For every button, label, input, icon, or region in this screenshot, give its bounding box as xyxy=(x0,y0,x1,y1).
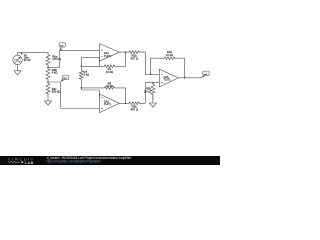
svg-text:1 kΩ: 1 kΩ xyxy=(84,73,90,77)
wire OA1 out + feedback riser xyxy=(119,52,129,66)
op-amp OA2 xyxy=(100,94,120,113)
resistor R7 xyxy=(80,57,82,70)
resistor R3a xyxy=(151,57,185,78)
footer bar xyxy=(0,156,220,165)
resistor R2b xyxy=(129,102,145,105)
R7 junction top xyxy=(81,66,83,68)
node A junction xyxy=(47,67,49,69)
ground (R6c) xyxy=(45,94,52,105)
wire node B to OA2 + xyxy=(48,82,100,109)
wire V1 top to R6a xyxy=(18,52,49,55)
svg-text:470 Ω: 470 Ω xyxy=(130,108,137,112)
OA3 output junction xyxy=(184,77,186,79)
R3a label xyxy=(166,50,173,57)
R7 label xyxy=(84,70,90,77)
wire R7 node to OA1 - xyxy=(81,57,99,66)
R6a label xyxy=(52,54,61,61)
resistor R2a xyxy=(129,51,145,54)
R2b label xyxy=(130,105,137,112)
R6c label xyxy=(52,87,61,94)
resistor R6c xyxy=(46,82,50,95)
svg-text:10 kΩ: 10 kΩ xyxy=(106,70,113,74)
svg-text:http://circuitlab.com/c6ky9b47: http://circuitlab.com/c6ky9b479qh8dw/ xyxy=(47,159,101,163)
flag in2 xyxy=(61,75,69,82)
svg-text:10 kΩ: 10 kΩ xyxy=(106,84,113,88)
R6b label xyxy=(52,68,58,75)
OA2 feedback junction xyxy=(125,103,127,105)
resistor R5 xyxy=(81,86,125,89)
ground (R3b) xyxy=(149,95,156,107)
R2a label xyxy=(130,53,137,60)
svg-text:10 kΩ: 10 kΩ xyxy=(144,89,151,93)
wire OA3 out to flag xyxy=(178,77,202,79)
svg-text:620 kΩ: 620 kΩ xyxy=(52,90,61,94)
junction R3b top xyxy=(152,82,154,84)
svg-text:TL071: TL071 xyxy=(164,79,172,82)
svg-text:LAB: LAB xyxy=(25,161,34,165)
wire node A to OA1 + xyxy=(48,51,100,68)
OA1 feedback junction xyxy=(125,51,127,53)
R7 junction bottom xyxy=(81,87,83,89)
svg-text:TL071: TL071 xyxy=(104,55,112,58)
junction R3a left xyxy=(150,74,152,76)
R4 label xyxy=(106,67,113,74)
op-amp OA3 xyxy=(159,69,178,87)
wire R7 bottom to OA2 - xyxy=(81,90,99,98)
voltage source V1 xyxy=(13,53,23,65)
R3b label xyxy=(144,86,152,93)
op-amp OA1 xyxy=(100,44,120,61)
resistor R4 xyxy=(81,65,125,68)
svg-text:TL071: TL071 xyxy=(104,103,112,106)
svg-text:4 kΩ: 4 kΩ xyxy=(52,71,58,75)
R5 label xyxy=(106,81,113,88)
wire R2a to OA3 - xyxy=(145,52,159,74)
resistor R6b xyxy=(46,67,50,82)
ground (V1) xyxy=(14,65,21,75)
svg-text:out: out xyxy=(204,73,207,76)
svg-text:10 kΩ: 10 kΩ xyxy=(166,53,173,57)
flag out xyxy=(202,71,209,77)
svg-text:470 Ω: 470 Ω xyxy=(130,56,137,60)
node B junction xyxy=(47,81,49,83)
wire R2b to OA3 + xyxy=(145,83,159,104)
svg-text:20 Hz: 20 Hz xyxy=(24,58,32,62)
resistor R6a xyxy=(46,54,50,67)
wire OA2 out + feedback riser xyxy=(119,88,129,103)
V1 label xyxy=(24,53,32,62)
resistor R3b xyxy=(151,83,155,101)
flag in1 xyxy=(59,43,65,51)
